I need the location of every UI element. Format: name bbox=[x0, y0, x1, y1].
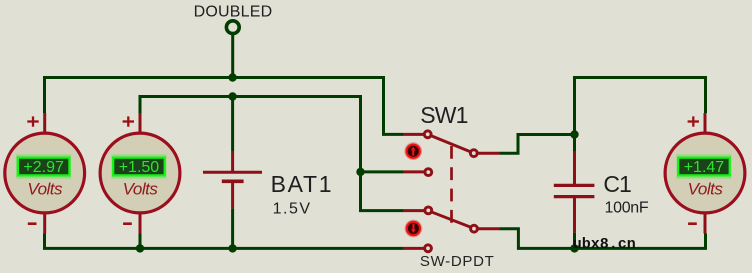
switch SW1 bbox=[403, 131, 499, 252]
svg-text:1.5V: 1.5V bbox=[273, 200, 312, 217]
terminal DOUBLED bbox=[226, 21, 239, 34]
junction bottom vm2 bbox=[136, 244, 144, 252]
pole1 common stub bbox=[478, 152, 500, 155]
battery BAT1 bbox=[203, 151, 262, 208]
wire pole2 common to bottom right rail bbox=[499, 229, 705, 249]
svg-text:Volts: Volts bbox=[27, 180, 63, 199]
svg-text:100nF: 100nF bbox=[605, 200, 649, 217]
pole1 lower throw contact bbox=[425, 169, 432, 176]
voltmeter V2 bbox=[100, 113, 180, 234]
pole2 common stub bbox=[478, 227, 500, 230]
pole2 common contact bbox=[471, 225, 478, 232]
wire cap bottom drop bbox=[573, 233, 576, 249]
svg-text:Volts: Volts bbox=[123, 180, 159, 199]
svg-text:BAT1: BAT1 bbox=[271, 171, 334, 197]
junction bottom battery bbox=[228, 244, 236, 252]
pole2 lower throw stub bbox=[403, 247, 424, 250]
wire pole1 common to cap top bbox=[499, 135, 574, 154]
junction cap top bbox=[570, 130, 578, 138]
pole1 lever bbox=[431, 136, 472, 153]
capacitor C1 bbox=[554, 151, 595, 233]
pole2 lower throw contact bbox=[425, 245, 432, 252]
svg-text:+1.47: +1.47 bbox=[684, 159, 725, 176]
linkage dashed bbox=[450, 146, 453, 226]
svg-text:+2.97: +2.97 bbox=[23, 159, 64, 176]
wire rail3 top right bbox=[575, 78, 706, 152]
pole2 top throw contact bbox=[425, 207, 432, 214]
wire bottom left rail bbox=[45, 234, 404, 249]
svg-text:C1: C1 bbox=[603, 171, 631, 197]
junction rail2 branch bbox=[356, 168, 364, 176]
voltmeter V1 bbox=[5, 113, 85, 234]
svg-text:SW-DPDT: SW-DPDT bbox=[420, 253, 495, 270]
pole1 lower throw stub bbox=[403, 170, 425, 173]
junction rail1/terminal bbox=[228, 73, 236, 81]
pole2 lever bbox=[431, 212, 471, 228]
voltmeter V3 bbox=[665, 113, 745, 234]
junction rail2/battery bbox=[228, 92, 236, 100]
svg-text:Volts: Volts bbox=[688, 180, 724, 199]
wire terminal to rail1 bbox=[231, 34, 234, 78]
wire branch to pole1 lower throw bbox=[361, 170, 404, 173]
svg-text:DOUBLED: DOUBLED bbox=[194, 3, 273, 20]
button pole1 up bbox=[404, 142, 422, 160]
svg-text:+1.50: +1.50 bbox=[119, 159, 160, 176]
wire battery bottom drop bbox=[231, 208, 234, 248]
svg-text:ubx8.cn: ubx8.cn bbox=[573, 236, 636, 253]
wire vm2 bottom drop bbox=[139, 234, 142, 249]
wire rail1 DOUBLED net bbox=[45, 78, 404, 135]
pole1 top throw contact bbox=[424, 131, 431, 138]
wire battery top drop bbox=[231, 97, 234, 152]
svg-text:SW1: SW1 bbox=[420, 102, 467, 128]
wire rail2 battery+ net bbox=[140, 97, 403, 211]
pole2 top throw stub bbox=[403, 209, 425, 212]
pole1 top throw stub bbox=[403, 133, 424, 136]
pole1 common contact bbox=[470, 150, 477, 157]
junction bottom cap bbox=[570, 244, 578, 252]
button pole2 down bbox=[405, 220, 423, 238]
